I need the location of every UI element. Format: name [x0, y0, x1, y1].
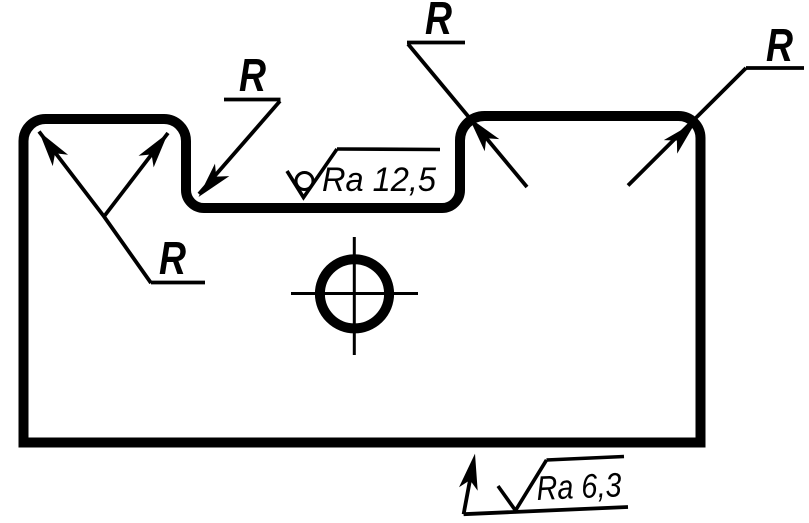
R4 underline — [746, 66, 804, 70]
leader R4 — [628, 68, 746, 186]
svg-text:R: R — [425, 0, 452, 44]
hole horizontal centerline — [291, 292, 418, 295]
part outline — [24, 116, 701, 443]
roughness symbol Ra 12,5 bar — [337, 147, 440, 151]
roughness symbol Ra 12,5 checkmark — [287, 149, 337, 198]
roughness Ra 6,3 bar — [547, 457, 625, 461]
roughness Ra 6,3 baseline — [464, 507, 628, 514]
roughness symbol Ra 12,5 circle — [296, 173, 313, 190]
roughness Ra 6,3 leader arrow — [464, 464, 473, 514]
svg-text:R: R — [159, 232, 186, 284]
hole vertical centerline — [353, 237, 356, 355]
R3 underline — [407, 41, 465, 45]
R1 underline — [151, 281, 205, 285]
arrow at top-left corner — [31, 126, 68, 166]
svg-text:R: R — [239, 49, 266, 101]
arrow at notch inner left corner — [191, 164, 229, 204]
leader R1 branch — [104, 133, 168, 217]
svg-text:Ra 12,5: Ra 12,5 — [322, 161, 436, 199]
leader R3 — [408, 44, 527, 187]
svg-text:R: R — [766, 19, 793, 71]
leader R1 main line — [39, 132, 151, 284]
roughness Ra 6,3 checkmark — [498, 460, 547, 511]
svg-text:Ra 6,3: Ra 6,3 — [536, 466, 623, 508]
arrow at notch left outer corner — [139, 127, 176, 167]
leader R2 — [199, 101, 280, 194]
hole circle — [320, 259, 389, 328]
arrow at top right corner — [664, 115, 703, 154]
R2 underline — [224, 98, 281, 102]
arrow at notch right outer corner — [462, 111, 500, 151]
